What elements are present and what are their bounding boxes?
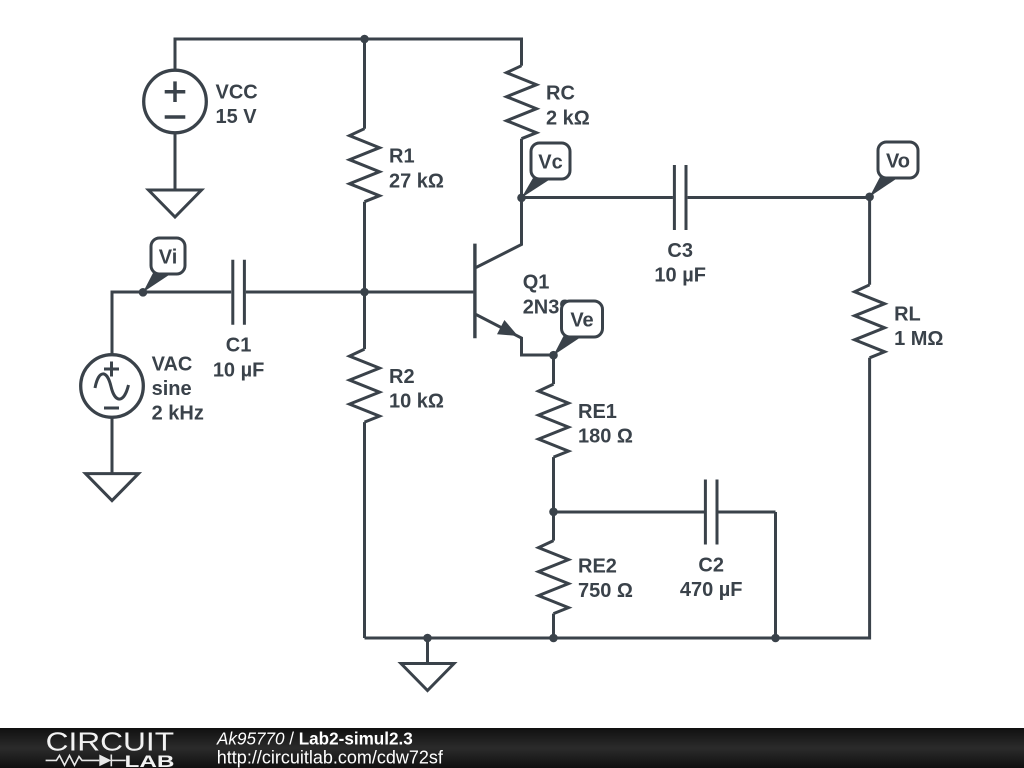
junction bottom rail/RE2 [549, 634, 558, 643]
ground (bottom rail) [401, 664, 454, 691]
capacitor C3 [654, 165, 706, 287]
svg-text:R1: R1 [389, 146, 415, 168]
svg-text:Vc: Vc [538, 152, 562, 174]
svg-text:Q1: Q1 [523, 272, 550, 294]
wire [426, 638, 429, 664]
node Ve [549, 301, 602, 360]
svg-text:10 µF: 10 µF [654, 265, 706, 287]
svg-text:15 V: 15 V [216, 106, 258, 128]
svg-text:C3: C3 [667, 240, 693, 262]
wire [868, 198, 871, 285]
svg-text:RC: RC [546, 83, 575, 105]
wire [174, 38, 177, 70]
wire [718, 511, 775, 514]
svg-text:VAC: VAC [152, 354, 193, 376]
voltage source VCC [144, 70, 258, 133]
voltage source VAC [81, 354, 204, 425]
junction node RE1/RE2/C2 [549, 508, 558, 517]
wire [522, 196, 673, 199]
wire [868, 358, 871, 640]
svg-text:1 MΩ: 1 MΩ [894, 328, 943, 350]
svg-text:10 µF: 10 µF [213, 359, 265, 381]
capacitor C2 [680, 480, 743, 602]
ground (VCC) [149, 190, 202, 217]
svg-text:180 Ω: 180 Ω [578, 426, 633, 448]
wire [363, 422, 366, 638]
svg-text:VCC: VCC [216, 82, 258, 104]
svg-text:27 kΩ: 27 kΩ [389, 170, 444, 192]
wire [774, 512, 777, 638]
svg-text:750 Ω: 750 Ω [578, 580, 633, 602]
junction top rail/R1 [360, 35, 369, 44]
svg-text:RL: RL [894, 303, 921, 325]
node Vi [139, 238, 185, 297]
wire [363, 39, 366, 129]
svg-text:RE1: RE1 [578, 401, 617, 423]
wire [688, 196, 870, 199]
wire [246, 291, 474, 294]
wire [111, 418, 114, 474]
wire [554, 511, 705, 514]
wire [365, 637, 870, 640]
wire [552, 457, 555, 512]
wire [552, 512, 555, 541]
svg-text:sine: sine [152, 378, 192, 400]
svg-text:R2: R2 [389, 366, 415, 388]
ground (VAC) [86, 474, 139, 501]
transistor Q1 [475, 198, 594, 355]
svg-text:Vo: Vo [886, 151, 910, 173]
svg-text:Ve: Ve [570, 310, 593, 332]
svg-text:2 kΩ: 2 kΩ [546, 107, 590, 129]
wire [520, 139, 523, 198]
svg-text:RE2: RE2 [578, 556, 617, 578]
svg-text:LAB: LAB [125, 752, 175, 768]
svg-text:10 kΩ: 10 kΩ [389, 391, 444, 413]
wire [552, 355, 555, 384]
resistor RL [855, 285, 944, 358]
wire [175, 38, 522, 41]
wire [363, 202, 366, 292]
wire [111, 291, 114, 355]
junction R1/R2/base [360, 288, 369, 297]
svg-text:http://circuitlab.com/cdw72sf: http://circuitlab.com/cdw72sf [217, 747, 444, 767]
wire [520, 38, 523, 66]
resistor RE2 [539, 541, 633, 614]
capacitor C1 [213, 260, 265, 382]
wire [174, 133, 177, 191]
junction bottom rail/ground [423, 634, 432, 643]
svg-text:470 µF: 470 µF [680, 579, 743, 601]
wire [112, 291, 231, 294]
svg-text:Vi: Vi [159, 247, 178, 269]
junction bottom rail/C2 branch [771, 634, 780, 643]
wire [363, 292, 366, 349]
resistor R1 [350, 129, 444, 202]
CircuitLab logo [46, 727, 175, 768]
svg-text:Ak95770 / Lab2-simul2.3: Ak95770 / Lab2-simul2.3 [216, 730, 413, 749]
resistor R2 [350, 349, 444, 422]
wire [552, 614, 555, 638]
svg-text:C2: C2 [698, 555, 724, 577]
node Vc [517, 143, 570, 202]
resistor RC [507, 66, 590, 139]
node Vo [865, 142, 918, 201]
svg-text:C1: C1 [226, 335, 252, 357]
svg-text:2 kHz: 2 kHz [152, 403, 204, 425]
resistor RE1 [539, 384, 633, 457]
